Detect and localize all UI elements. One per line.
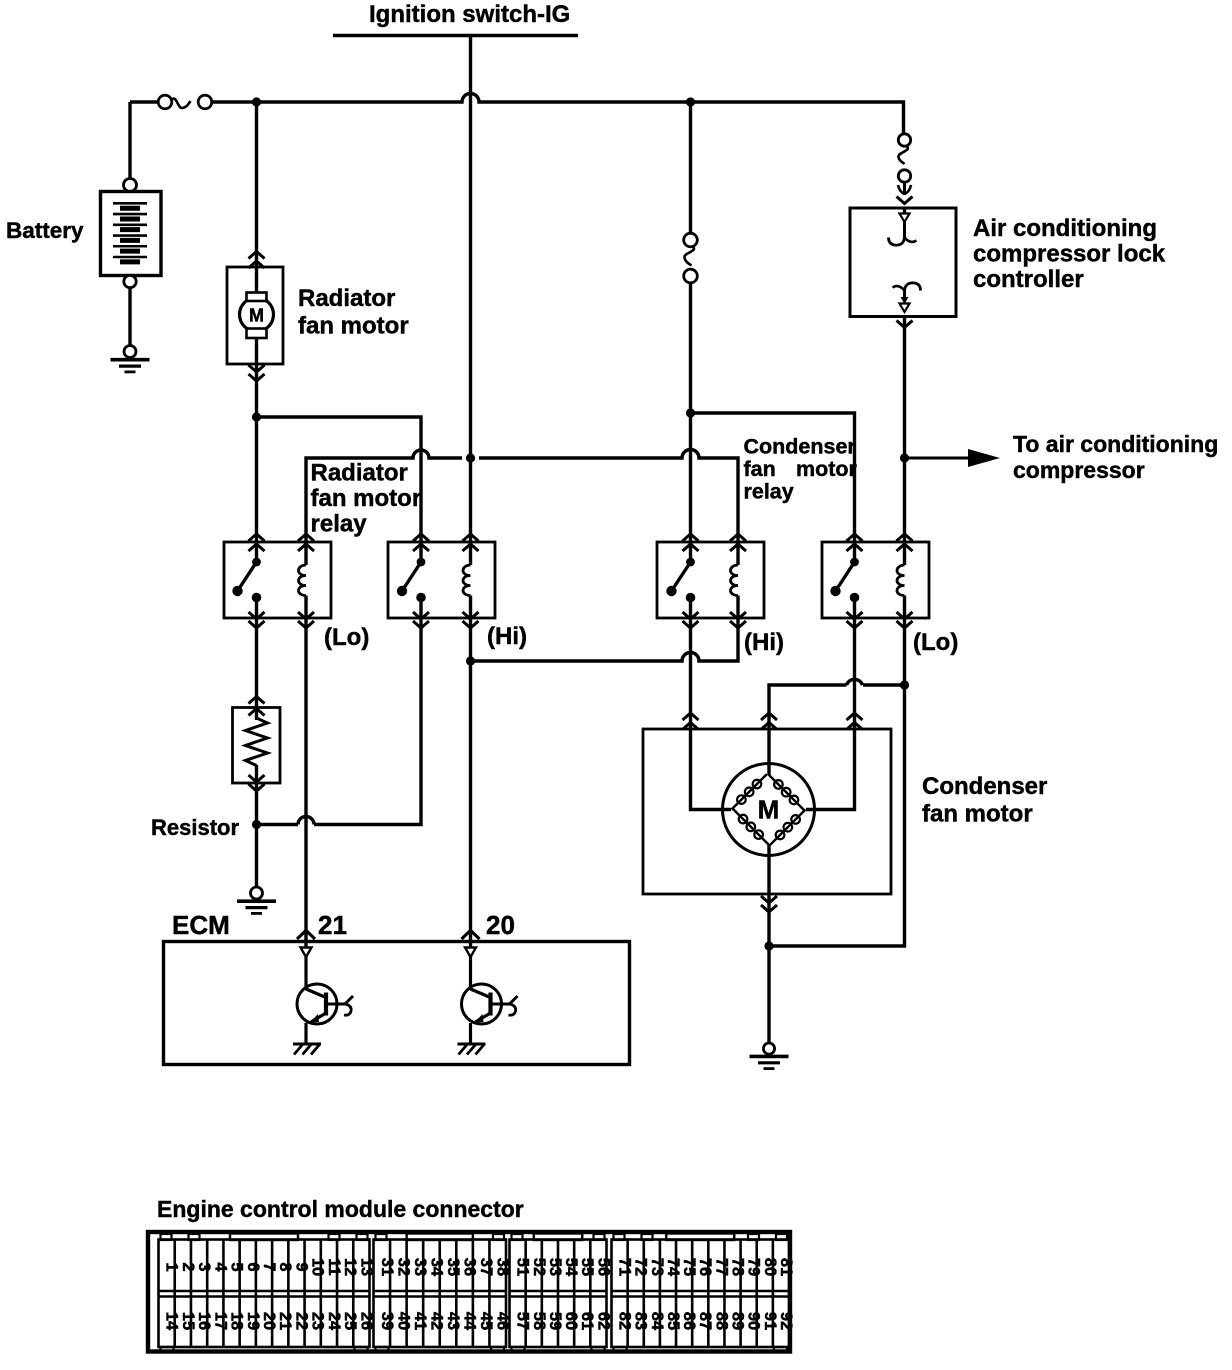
svg-text:16: 16 bbox=[195, 1312, 213, 1330]
svg-text:80: 80 bbox=[761, 1258, 779, 1276]
svg-text:51: 51 bbox=[514, 1258, 532, 1276]
svg-text:42: 42 bbox=[428, 1312, 446, 1330]
svg-text:(Hi): (Hi) bbox=[487, 623, 527, 650]
svg-text:Engine control module connecto: Engine control module connector bbox=[157, 1196, 524, 1222]
wire: A/C lock controller to condenser Lo relay coil bbox=[903, 317, 906, 543]
ECM pin 20 terminal (open triangle) bbox=[465, 948, 476, 958]
junction: to air conditioning compressor bbox=[900, 453, 909, 462]
svg-text:61: 61 bbox=[578, 1312, 596, 1330]
svg-text:fan motor: fan motor bbox=[311, 485, 422, 512]
svg-text:56: 56 bbox=[594, 1258, 612, 1276]
svg-text:90: 90 bbox=[745, 1312, 763, 1330]
ECM connector block 1 pin numbers bbox=[163, 1258, 376, 1331]
condenser fan motor bbox=[723, 764, 815, 856]
connector marks below condenser fan motor bbox=[761, 896, 777, 912]
ECM connector block 1 bbox=[159, 1234, 370, 1353]
svg-text:40: 40 bbox=[394, 1312, 412, 1330]
wire: condenser Hi relay switch to motor bbox=[689, 618, 692, 729]
wire: ignition IG feed down to coil of Hi radiator relay bbox=[469, 36, 472, 543]
battery bbox=[101, 179, 162, 288]
wire: branch to Hi relay switch bbox=[257, 417, 422, 542]
svg-text:59: 59 bbox=[546, 1312, 564, 1330]
svg-text:77: 77 bbox=[712, 1258, 730, 1276]
condenser fan motor box bbox=[643, 729, 891, 894]
svg-text:relay: relay bbox=[311, 511, 368, 538]
svg-text:compressor lock: compressor lock bbox=[973, 241, 1166, 268]
svg-text:62: 62 bbox=[594, 1312, 612, 1330]
svg-text:88: 88 bbox=[712, 1312, 730, 1330]
svg-text:fan motor: fan motor bbox=[922, 801, 1033, 828]
svg-text:86: 86 bbox=[680, 1312, 698, 1330]
ECM box bbox=[164, 942, 630, 1065]
svg-text:fan motor: fan motor bbox=[298, 313, 409, 340]
wire: bus down to radiator fan motor bbox=[255, 102, 258, 293]
svg-text:33: 33 bbox=[411, 1258, 429, 1276]
transistor Q2 (pin 20, Hi) (ECM output driver) bbox=[462, 957, 518, 1044]
svg-text:79: 79 bbox=[745, 1258, 763, 1276]
svg-text:controller: controller bbox=[973, 266, 1084, 293]
svg-text:72: 72 bbox=[632, 1258, 650, 1276]
wire: radiator fan motor to Lo relay switch bbox=[255, 339, 258, 543]
svg-text:76: 76 bbox=[696, 1258, 714, 1276]
svg-text:25: 25 bbox=[341, 1312, 359, 1330]
svg-text:45: 45 bbox=[477, 1312, 495, 1330]
connector marks on relay pins: radiator fan motor relay (Lo) bbox=[249, 534, 315, 628]
radiator fan motor bbox=[227, 267, 283, 364]
svg-text:6: 6 bbox=[244, 1262, 262, 1271]
svg-text:8: 8 bbox=[276, 1262, 294, 1271]
svg-text:motor: motor bbox=[796, 457, 858, 481]
svg-text:Battery: Battery bbox=[6, 218, 84, 243]
svg-text:54: 54 bbox=[562, 1258, 580, 1277]
resistor bbox=[233, 708, 281, 784]
svg-text:55: 55 bbox=[578, 1258, 596, 1276]
svg-text:74: 74 bbox=[664, 1258, 682, 1277]
connector marks below radiator fan motor bbox=[249, 365, 265, 381]
svg-text:53: 53 bbox=[546, 1258, 564, 1276]
wire: battery negative to ground bbox=[128, 288, 131, 347]
svg-text:36: 36 bbox=[461, 1258, 479, 1276]
wire: coil return rail to condenser Hi relay coil bbox=[471, 618, 739, 661]
svg-text:ECM: ECM bbox=[172, 910, 230, 940]
svg-text:19: 19 bbox=[244, 1312, 262, 1330]
svg-text:81: 81 bbox=[777, 1258, 795, 1276]
connector marks above radiator fan motor bbox=[249, 252, 265, 269]
svg-text:73: 73 bbox=[648, 1258, 666, 1276]
svg-text:31: 31 bbox=[378, 1258, 396, 1276]
fuse (condenser fan) bbox=[684, 233, 698, 283]
svg-text:60: 60 bbox=[562, 1312, 580, 1330]
wire: fuse to condenser Hi relay switch bbox=[689, 283, 692, 543]
junction: resistor / Hi relay return bbox=[252, 820, 261, 829]
svg-text:18: 18 bbox=[228, 1312, 246, 1330]
relay switch contacts: radiator fan motor relay (Lo) bbox=[232, 542, 261, 618]
svg-text:35: 35 bbox=[444, 1258, 462, 1276]
connector marks on relay pins: condenser fan motor relay (Lo) bbox=[847, 534, 913, 628]
svg-text:M: M bbox=[758, 795, 780, 825]
svg-text:(Hi): (Hi) bbox=[744, 629, 784, 656]
svg-text:To air conditioning: To air conditioning bbox=[1013, 431, 1218, 457]
wire: motor internal Hi input bbox=[691, 729, 732, 810]
svg-text:1: 1 bbox=[163, 1262, 181, 1271]
svg-text:Ignition switch-IG: Ignition switch-IG bbox=[369, 1, 570, 28]
svg-text:4: 4 bbox=[211, 1262, 229, 1272]
chassis ground under transistor Q1 (pin 21, Lo) bbox=[293, 1044, 321, 1055]
wire: motor internal common top bbox=[767, 729, 770, 775]
wire: main supply bus bbox=[130, 94, 904, 134]
svg-text:22: 22 bbox=[293, 1312, 311, 1330]
ECM connector block 2 pin numbers bbox=[378, 1258, 512, 1331]
wire: relay coil supply rail (left) bbox=[306, 450, 738, 543]
junction: motor return / Lo coil return bbox=[764, 941, 773, 950]
svg-text:21: 21 bbox=[318, 910, 347, 940]
ECM connector block 2 bbox=[374, 1234, 507, 1353]
A/C lock controller internal bottom terminal bbox=[893, 283, 921, 312]
svg-text:Condenser: Condenser bbox=[744, 435, 857, 459]
junction: condenser feed branch bbox=[686, 408, 695, 417]
ground (condenser fan motor) bbox=[763, 1043, 774, 1054]
svg-text:Air conditioning: Air conditioning bbox=[973, 215, 1157, 242]
wire: bus branch down condenser circuit bbox=[689, 102, 692, 234]
svg-text:75: 75 bbox=[680, 1258, 698, 1276]
ECM connector outline bbox=[148, 1232, 790, 1352]
svg-text:Radiator: Radiator bbox=[311, 460, 408, 487]
ECM connector block 3 pin numbers bbox=[514, 1258, 613, 1330]
svg-text:9: 9 bbox=[293, 1262, 311, 1271]
svg-text:compressor: compressor bbox=[1013, 457, 1145, 483]
relay box: condenser fan motor relay (Lo) bbox=[822, 542, 929, 618]
svg-text:91: 91 bbox=[761, 1312, 779, 1330]
A/C compressor lock controller box bbox=[850, 208, 956, 317]
svg-text:32: 32 bbox=[394, 1258, 412, 1276]
fuse (battery feed) bbox=[158, 95, 212, 109]
svg-text:58: 58 bbox=[530, 1312, 548, 1330]
svg-text:Radiator: Radiator bbox=[298, 285, 395, 312]
svg-text:83: 83 bbox=[632, 1312, 650, 1330]
svg-text:71: 71 bbox=[616, 1258, 634, 1276]
relay box: condenser fan motor relay (Hi) bbox=[657, 542, 764, 618]
arrow: to air conditioning compressor bbox=[905, 449, 1001, 467]
svg-text:20: 20 bbox=[486, 910, 515, 940]
svg-text:17: 17 bbox=[211, 1312, 229, 1330]
connector marks at resistor bbox=[249, 697, 265, 792]
wire: resistor to ground bbox=[255, 765, 258, 888]
svg-text:10: 10 bbox=[309, 1258, 327, 1276]
svg-text:(Lo): (Lo) bbox=[324, 624, 369, 651]
wire: Lo relay coil to ECM pin 21 bbox=[304, 618, 307, 957]
connector mark below A/C lock controller bbox=[897, 321, 913, 328]
wire: Hi relay switch return to resistor node bbox=[257, 618, 422, 825]
relay coil: radiator fan motor relay (Lo) bbox=[299, 542, 307, 618]
svg-text:84: 84 bbox=[648, 1312, 666, 1331]
wire: branch to condenser Lo relay switch bbox=[691, 413, 855, 542]
svg-text:34: 34 bbox=[428, 1258, 446, 1277]
svg-text:Condenser: Condenser bbox=[922, 773, 1047, 800]
svg-text:20: 20 bbox=[260, 1312, 278, 1330]
wire: Lo coil return down right side bbox=[769, 685, 905, 946]
wire: motor common top feed bbox=[769, 679, 905, 729]
svg-text:44: 44 bbox=[461, 1312, 479, 1331]
connector marks on relay pins: radiator fan motor relay (Hi) bbox=[413, 534, 479, 628]
relay coil: radiator fan motor relay (Hi) bbox=[463, 542, 471, 618]
svg-text:24: 24 bbox=[325, 1312, 343, 1331]
relay box: radiator fan motor relay (Hi) bbox=[388, 542, 495, 618]
svg-text:78: 78 bbox=[729, 1258, 747, 1276]
relay box: radiator fan motor relay (Lo) bbox=[224, 542, 331, 618]
svg-text:52: 52 bbox=[530, 1258, 548, 1276]
wire: condenser Lo relay switch to motor bbox=[853, 618, 856, 729]
relay coil: condenser fan motor relay (Hi) bbox=[731, 542, 739, 618]
junction: bus / condenser fan circuit feed bbox=[686, 97, 695, 106]
svg-text:M: M bbox=[249, 306, 264, 326]
junction: bus / radiator fan motor feed bbox=[252, 97, 261, 106]
svg-text:14: 14 bbox=[163, 1312, 181, 1331]
svg-text:(Lo): (Lo) bbox=[913, 629, 958, 656]
svg-text:Resistor: Resistor bbox=[151, 815, 239, 840]
svg-text:relay: relay bbox=[744, 480, 794, 504]
svg-text:87: 87 bbox=[696, 1312, 714, 1330]
svg-text:21: 21 bbox=[276, 1312, 294, 1330]
connector marks at condenser fan motor top bbox=[683, 713, 863, 730]
connector marks at ECM pins bbox=[297, 931, 480, 940]
svg-text:23: 23 bbox=[309, 1312, 327, 1330]
svg-text:85: 85 bbox=[664, 1312, 682, 1330]
relay switch contacts: condenser fan motor relay (Lo) bbox=[830, 542, 859, 618]
junction: Hi coil return / condenser Hi coil rail bbox=[466, 656, 475, 665]
wire: battery positive to bus bbox=[128, 102, 131, 180]
ECM connector block 4 pin numbers bbox=[616, 1258, 795, 1331]
svg-text:15: 15 bbox=[179, 1312, 197, 1330]
svg-text:fan: fan bbox=[744, 457, 776, 481]
connector terminal above A/C lock controller bbox=[897, 182, 913, 204]
svg-text:39: 39 bbox=[378, 1312, 396, 1330]
junction: Lo coil return / motor common bbox=[900, 680, 909, 689]
ECM pin 21 terminal (open triangle) bbox=[301, 948, 312, 958]
svg-text:12: 12 bbox=[341, 1258, 359, 1276]
svg-text:11: 11 bbox=[325, 1258, 343, 1275]
svg-text:37: 37 bbox=[477, 1258, 495, 1276]
junction: coil rail / IG feed bbox=[466, 453, 475, 462]
svg-text:57: 57 bbox=[514, 1312, 532, 1330]
ECM connector block 3 bbox=[510, 1234, 607, 1353]
wire: condenser Lo relay coil down bbox=[903, 618, 906, 685]
svg-text:41: 41 bbox=[411, 1312, 429, 1330]
svg-text:3: 3 bbox=[195, 1262, 213, 1271]
svg-text:92: 92 bbox=[777, 1312, 795, 1330]
wire: motor common to ground bbox=[767, 844, 770, 1044]
relay coil: condenser fan motor relay (Lo) bbox=[897, 542, 905, 618]
transistor Q1 (pin 21, Lo) (ECM output driver) bbox=[297, 957, 353, 1044]
wire: Hi relay coil to ECM pin 20 bbox=[469, 618, 472, 957]
svg-text:5: 5 bbox=[228, 1262, 246, 1271]
ground (resistor) bbox=[251, 887, 263, 899]
relay switch contacts: condenser fan motor relay (Hi) bbox=[666, 542, 695, 618]
svg-text:2: 2 bbox=[179, 1262, 197, 1271]
ECM connector block 4 bbox=[612, 1234, 790, 1353]
ground (battery) bbox=[124, 346, 136, 358]
fuse (A/C compressor) bbox=[898, 134, 910, 182]
svg-text:89: 89 bbox=[729, 1312, 747, 1330]
chassis ground under transistor Q2 (pin 20, Hi) bbox=[458, 1044, 486, 1055]
ignition switch bus bar bbox=[333, 34, 578, 38]
relay switch contacts: radiator fan motor relay (Hi) bbox=[397, 542, 426, 618]
junction: radiator motor return branch bbox=[252, 412, 261, 421]
svg-text:7: 7 bbox=[260, 1262, 278, 1271]
A/C lock controller internal top terminal bbox=[889, 208, 917, 245]
wire: Lo relay switch to resistor bbox=[255, 618, 258, 720]
connector marks on relay pins: condenser fan motor relay (Hi) bbox=[683, 534, 747, 628]
wire: motor internal Lo input bbox=[806, 729, 855, 810]
svg-text:43: 43 bbox=[444, 1312, 462, 1330]
svg-text:82: 82 bbox=[616, 1312, 634, 1330]
